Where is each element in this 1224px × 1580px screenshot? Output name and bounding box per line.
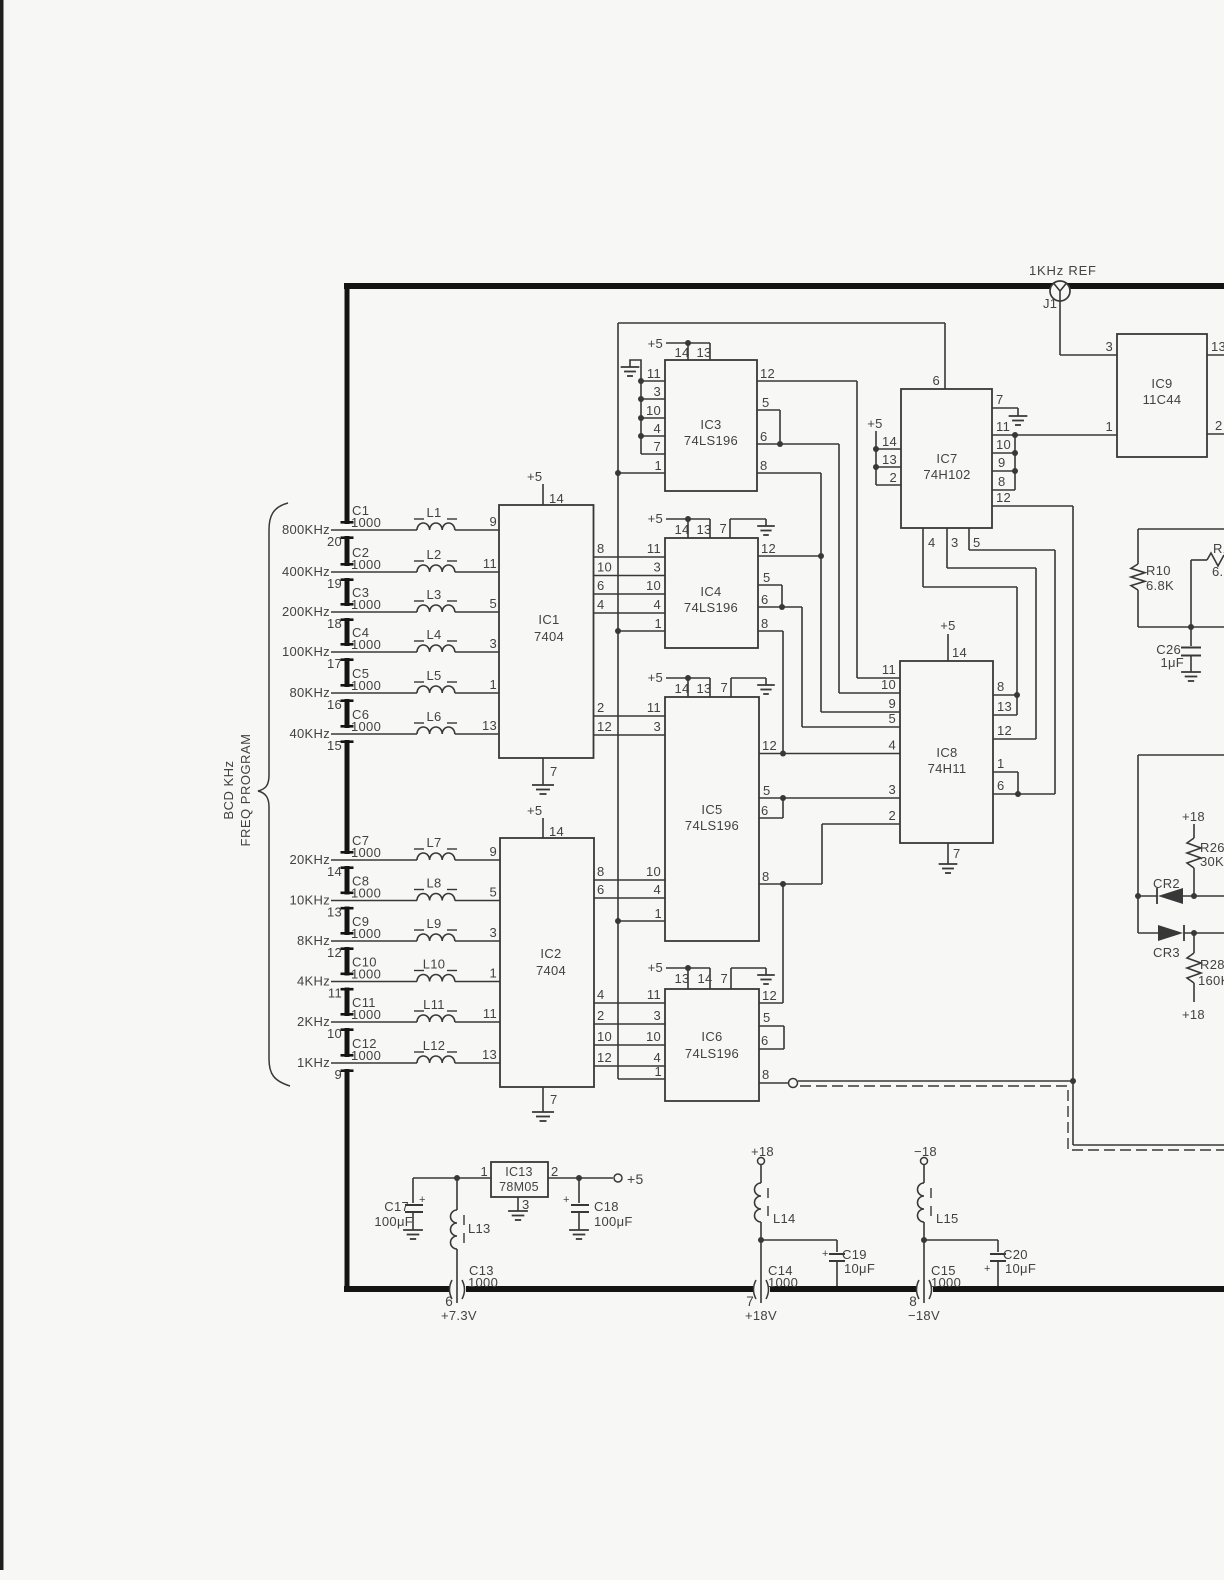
svg-text:7: 7 [719,521,727,536]
wire IC6 pin 5 to pin 6 [759,1025,784,1027]
svg-text:12: 12 [996,490,1011,505]
svg-text:L9: L9 [426,916,441,931]
svg-text:8: 8 [597,541,605,556]
svg-text:1000: 1000 [351,967,381,982]
svg-text:L2: L2 [426,547,441,562]
wire IC4 pin 5 to pin 6 [758,584,782,586]
svg-text:+: + [563,1194,570,1206]
capacitor C26 1uF [1190,627,1192,646]
svg-text:IC7: IC7 [936,451,957,466]
svg-text:8: 8 [762,1067,770,1082]
svg-text:1000: 1000 [351,1048,381,1063]
svg-text:10μF: 10μF [844,1261,875,1276]
svg-text:100μF: 100μF [594,1214,633,1229]
capacitor C14 1000 feedthrough [754,1280,769,1299]
wire 80KHz row [331,692,417,694]
wire IC2 pin 8 to IC5 pin 10 [594,879,665,881]
inductor L12 [417,1056,455,1063]
svg-text:1000: 1000 [351,678,381,693]
svg-text:+5: +5 [627,1171,644,1187]
svg-text:6: 6 [597,578,605,593]
svg-text:8: 8 [761,616,769,631]
svg-text:2: 2 [1215,418,1223,433]
resistor R11 (clipped at edge) [1207,553,1224,566]
ground IC3 left [630,360,641,381]
svg-text:74LS196: 74LS196 [685,1046,739,1061]
svg-text:7: 7 [953,846,961,861]
ground IC4 pin 7 [729,519,731,538]
svg-text:FREQ PROGRAM: FREQ PROGRAM [238,734,253,847]
svg-text:18: 18 [327,616,342,631]
svg-text:17: 17 [327,656,342,671]
svg-text:2: 2 [889,470,897,485]
feedthrough capacitor plate serifs at row y=612 [341,603,354,606]
svg-text:R1: R1 [1213,541,1224,556]
IC IC3 74LS196 box [665,360,757,491]
svg-text:1000: 1000 [351,886,381,901]
svg-text:+5: +5 [648,960,663,975]
svg-text:+5: +5 [648,670,663,685]
svg-text:11: 11 [647,541,661,556]
wire 10KHz row [331,900,417,902]
inductor L13 [456,1178,458,1210]
feedthrough capacitor plate serifs at row y=693 [341,684,354,687]
svg-text:R26: R26 [1200,840,1224,855]
wire IC8 pin 8 junction [993,694,1017,696]
svg-text:200KHz: 200KHz [282,604,330,619]
svg-text:10: 10 [996,437,1011,452]
wire center conductor to junction [798,1080,1073,1082]
wire 20KHz row [331,859,417,861]
svg-text:−18: −18 [914,1144,937,1159]
wire IC3 input bracket pins 11 3 10 4 7 [640,381,642,454]
inductor L5 [417,686,455,693]
svg-text:74LS196: 74LS196 [684,433,738,448]
svg-text:9: 9 [489,844,497,859]
wire IC7 pin 4 to IC8 pins 8 13 [922,528,924,587]
svg-text:14: 14 [674,681,689,696]
svg-text:12: 12 [597,1050,612,1065]
svg-text:13: 13 [674,971,689,986]
svg-text:8KHz: 8KHz [297,933,330,948]
IC IC8 74H11 box [900,661,993,843]
svg-text:IC6: IC6 [701,1029,722,1044]
feedthrough capacitor plate serifs at row y=900.5 [341,892,354,895]
svg-text:11: 11 [483,1006,497,1021]
wire 1KHz row [331,1062,417,1064]
svg-text:10: 10 [646,578,661,593]
IC IC2 7404 box [500,838,594,1087]
svg-text:L11: L11 [423,997,445,1012]
svg-text:L12: L12 [423,1038,446,1053]
feedthrough capacitor plate serifs at row y=941 [341,932,354,935]
svg-text:C18: C18 [594,1199,619,1214]
svg-text:9: 9 [334,1067,342,1082]
wire 8KHz row [331,940,417,942]
shield dashed line [800,1086,1224,1150]
ground IC8 pin 7 [947,843,949,864]
svg-text:IC1: IC1 [538,612,559,627]
svg-text:74H102: 74H102 [923,467,970,482]
resistor R28 160K [1193,933,1195,953]
wire IC7 pin 3 to IC8 pin 12 [946,528,948,568]
wire J1 to IC9 pin 3 [1059,301,1061,355]
svg-text:5: 5 [763,570,771,585]
svg-text:8: 8 [760,458,768,473]
capacitor C13 1000 feedthrough [456,1280,458,1303]
svg-text:10μF: 10μF [1005,1261,1036,1276]
ground C18 [569,1229,589,1231]
svg-text:11: 11 [483,556,497,571]
wire IC7 pins 10 9 8 tie [1014,435,1016,490]
wire IC7 pin 5 to IC8 pins 1 6 [968,528,970,550]
svg-text:L10: L10 [423,957,446,972]
svg-text:6.8K: 6.8K [1146,578,1174,593]
svg-text:2: 2 [888,808,896,823]
wire IC5 pin 12 to IC8 pin 4 [759,753,900,755]
svg-text:+: + [822,1248,829,1260]
svg-text:7404: 7404 [534,629,564,644]
svg-text:+5: +5 [527,469,542,484]
svg-text:14: 14 [674,522,689,537]
wire left branch down [1137,755,1139,933]
ground IC5 pin 7 [730,678,732,697]
wire IC3 pin 12 to IC8 pin 11 [757,380,857,382]
svg-text:3: 3 [653,384,661,399]
svg-text:1KHz REF: 1KHz REF [1029,263,1097,278]
inductor L8 [417,893,455,900]
svg-text:4KHz: 4KHz [297,974,330,989]
wire IC2 pin 4 to IC6 pin 11 [594,1002,665,1004]
svg-text:4: 4 [653,1050,661,1065]
svg-text:IC4: IC4 [700,584,721,599]
capacitor C18 100uF [578,1178,580,1203]
feedthrough capacitor plate serifs at row y=860 [341,851,354,854]
svg-text:5: 5 [489,596,497,611]
svg-text:14: 14 [882,434,897,449]
svg-text:IC8: IC8 [936,745,957,760]
feedthrough capacitor plate serifs at row y=981.5 [341,973,354,976]
inductor L1 [417,523,455,530]
svg-text:6: 6 [997,778,1005,793]
svg-text:+5: +5 [867,416,882,431]
svg-text:1000: 1000 [351,515,381,530]
svg-text:+5: +5 [940,618,955,633]
svg-text:L3: L3 [426,587,441,602]
svg-text:IC5: IC5 [701,802,722,817]
svg-text:L4: L4 [426,627,441,642]
svg-text:14: 14 [697,971,712,986]
wire IC3 pin 5 to pin 6 [757,409,780,411]
svg-text:4: 4 [888,738,896,753]
svg-text:+18: +18 [1182,809,1205,824]
svg-text:7: 7 [720,680,728,695]
svg-text:160K: 160K [1198,973,1224,988]
svg-text:30K: 30K [1200,854,1224,869]
svg-text:1KHz: 1KHz [297,1055,330,1070]
svg-text:1000: 1000 [351,719,381,734]
svg-text:6: 6 [761,592,769,607]
svg-text:L13: L13 [468,1221,491,1236]
svg-text:1μF: 1μF [1160,655,1184,670]
wire to IC5 pin 1 [618,920,665,922]
svg-text:74LS196: 74LS196 [685,818,739,833]
svg-text:5: 5 [763,783,771,798]
inductor L4 [417,645,455,652]
svg-text:800KHz: 800KHz [282,522,330,537]
svg-text:3: 3 [522,1197,530,1212]
svg-text:1: 1 [997,756,1005,771]
ground IC13 pin 3 [517,1197,519,1211]
svg-text:1: 1 [489,677,497,692]
capacitor C20 10uF [990,1253,1006,1255]
feedthrough capacitor plate serifs at row y=652 [341,643,354,646]
svg-text:11: 11 [996,419,1010,434]
wire IC3 pin 6 to IC8 pin 10 [757,443,839,445]
svg-text:15: 15 [327,738,342,753]
svg-text:4: 4 [653,882,661,897]
wire IC1 pin 10 to IC4 pin 3 [594,575,666,577]
svg-text:−18V: −18V [908,1308,940,1323]
wire IC2 pin 12 to IC6 pin 4 [594,1065,665,1067]
svg-text:11: 11 [882,662,896,677]
wire IC9 pin 2 to edge [1207,433,1224,435]
svg-text:2: 2 [551,1164,559,1179]
svg-text:+: + [419,1194,426,1206]
svg-text:74LS196: 74LS196 [684,600,738,615]
feedthrough capacitor plate serifs at row y=1022 [341,1013,354,1016]
svg-text:7: 7 [746,1294,754,1309]
inductor L11 [417,1015,455,1022]
svg-text:8: 8 [997,679,1005,694]
svg-text:10: 10 [646,403,661,418]
svg-text:11: 11 [647,987,661,1002]
svg-text:+18V: +18V [745,1308,777,1323]
brace BCD KHz FREQ PROGRAM group [258,503,290,1086]
svg-text:+7.3V: +7.3V [441,1308,477,1323]
svg-text:5: 5 [489,885,497,900]
svg-text:L5: L5 [426,668,441,683]
ground IC6 pin 7 [730,968,732,989]
wire to IC3 pin 1 [618,472,665,474]
svg-text:8: 8 [762,869,770,884]
wire top of diode network [1138,754,1224,756]
svg-text:3: 3 [653,560,661,575]
svg-text:13: 13 [997,699,1012,714]
wire IC7 pin 11 to IC9 pin 1 [992,434,1117,436]
svg-text:13: 13 [696,522,711,537]
svg-text:12: 12 [762,988,777,1003]
svg-text:3: 3 [951,535,959,550]
svg-text:4: 4 [597,597,605,612]
svg-text:7: 7 [996,392,1004,407]
svg-text:5: 5 [763,1010,771,1025]
wire IC6 pin 12 to IC5 pin 8 node [759,1002,783,1004]
svg-text:IC2: IC2 [540,946,561,961]
wire IC1 pin 8 to IC4 pin 11 [594,556,666,558]
svg-text:13: 13 [482,718,497,733]
wire IC9 pin 13 to edge [1207,354,1224,356]
svg-text:20: 20 [327,534,342,549]
svg-text:10: 10 [881,677,896,692]
ground C26 [1181,671,1201,673]
wire 4KHz row [331,981,417,983]
wire R10 bottom node [1138,626,1224,628]
svg-text:13: 13 [696,345,711,360]
svg-text:3: 3 [489,636,497,651]
scan edge artifact [0,0,4,1570]
svg-text:L7: L7 [426,835,441,850]
IC IC7 74H102 box [901,389,992,528]
svg-text:12: 12 [597,719,612,734]
shield border left [345,283,350,524]
inductor L3 [417,605,455,612]
IC IC6 74LS196 box [665,989,759,1101]
svg-text:1000: 1000 [931,1275,961,1290]
wire IC4 pin 8 to IC5 pin 12 node [758,630,783,632]
svg-text:400KHz: 400KHz [282,564,330,579]
wire bus IC7 pin 6 to pin 1 inputs [617,323,619,1079]
svg-text:78M05: 78M05 [499,1180,539,1194]
ground IC7 pin 7 [992,407,1018,409]
svg-text:IC3: IC3 [700,417,721,432]
wire IC2 pin 2 to IC6 pin 3 [594,1023,665,1025]
svg-text:1: 1 [1105,419,1113,434]
svg-text:+5: +5 [648,336,663,351]
svg-text:L8: L8 [426,876,441,891]
svg-text:R28: R28 [1200,957,1224,972]
svg-text:L14: L14 [773,1211,796,1226]
diode CR3 [1138,932,1158,934]
svg-text:6: 6 [932,373,940,388]
wire IC1 pin 12 to IC5 pin 3 [594,734,666,736]
svg-text:11C44: 11C44 [1143,392,1182,407]
svg-text:6: 6 [761,803,769,818]
svg-text:10: 10 [597,1029,612,1044]
svg-text:1: 1 [654,906,662,921]
IC IC4 74LS196 box [665,538,758,648]
svg-text:7: 7 [550,1092,558,1107]
wire 800KHz row [331,529,417,531]
wire IC8 pin 12 [993,738,1036,740]
svg-text:14: 14 [952,645,967,660]
wire to IC4 pin 1 [618,630,665,632]
wire 400KHz row [331,571,417,573]
inductor L15 [923,1165,925,1184]
svg-text:C17: C17 [384,1199,409,1214]
wire 200KHz row [331,611,417,613]
svg-text:4: 4 [928,535,936,550]
inductor L14 [760,1165,762,1184]
svg-text:12: 12 [327,945,342,960]
svg-text:BCD KHz: BCD KHz [221,760,236,819]
svg-text:3: 3 [653,719,661,734]
feedthrough capacitor plate serifs at row y=572 [341,563,354,566]
wire IC13 pin 2 output +5 [548,1177,613,1179]
svg-text:74H11: 74H11 [928,761,967,776]
svg-text:2: 2 [597,700,605,715]
svg-text:14: 14 [674,345,689,360]
wire IC6 pin 8 shielded output [759,1082,788,1084]
svg-text:1000: 1000 [351,637,381,652]
svg-text:1: 1 [654,458,662,473]
svg-text:13: 13 [1211,339,1224,354]
svg-text:3: 3 [489,925,497,940]
ground IC2 pin 7 [542,1087,544,1112]
svg-text:12: 12 [762,738,777,753]
wire to IC6 pin 1 [618,1078,665,1080]
capacitor C19 10uF [829,1253,845,1255]
wire IC8 pin 6 junction [993,793,1055,795]
svg-text:R10: R10 [1146,563,1171,578]
ground C17 [403,1229,423,1231]
svg-text:12: 12 [761,541,776,556]
svg-text:13: 13 [696,681,711,696]
svg-text:100μF: 100μF [374,1214,413,1229]
inductor L7 [417,853,455,860]
wire IC4 pin 6 to IC8 pin 5 [758,606,802,608]
svg-text:+: + [984,1263,991,1275]
wire IC13 pin 1 input [413,1177,491,1179]
wire IC1 pin 2 to IC5 pin 11 [594,715,666,717]
shield border bottom [344,1286,449,1292]
svg-text:40KHz: 40KHz [289,726,330,741]
svg-text:10: 10 [646,864,661,879]
inductor L9 [417,934,455,941]
svg-text:7: 7 [550,764,558,779]
svg-text:6: 6 [597,882,605,897]
svg-text:3: 3 [1105,339,1113,354]
ground IC1 pin 7 [542,758,544,785]
svg-text:7: 7 [653,439,661,454]
wire IC2 pin 10 to IC6 pin 10 [594,1044,665,1046]
wire IC1 pin 4 to IC4 pin 4 [594,612,666,614]
svg-text:IC9: IC9 [1151,376,1172,391]
svg-text:J1: J1 [1043,296,1057,311]
svg-text:L6: L6 [426,709,441,724]
wire IC3 pin 8 to IC8 pin 9 [757,472,821,474]
wire IC4 pin 12 to junction [758,555,821,557]
resistor R26 30K [1193,824,1195,838]
svg-text:16: 16 [327,697,342,712]
svg-text:13: 13 [482,1047,497,1062]
svg-text:1000: 1000 [351,926,381,941]
svg-text:5: 5 [762,395,770,410]
svg-text:8: 8 [998,474,1006,489]
svg-text:L1: L1 [426,505,441,520]
IC IC1 7404 box [499,505,594,758]
svg-text:6: 6 [760,429,768,444]
wire 40KHz row [331,733,417,735]
svg-text:12: 12 [997,723,1012,738]
svg-text:14: 14 [549,491,564,506]
svg-text:1000: 1000 [351,845,381,860]
IC IC5 74LS196 box [665,697,759,941]
svg-text:9: 9 [998,455,1006,470]
wire IC5 pin 8 to IC6 pin 12 and IC8 pin 2 [759,883,822,885]
svg-text:4: 4 [653,597,661,612]
svg-text:12: 12 [760,366,775,381]
svg-text:14: 14 [327,864,342,879]
inductor L10 [417,974,455,981]
inductor L6 [417,727,455,734]
inductor L2 [417,565,455,572]
wire IC8 pin 1 [993,771,1018,773]
svg-text:11: 11 [328,986,342,1001]
svg-text:80KHz: 80KHz [289,685,330,700]
svg-text:19: 19 [327,576,342,591]
svg-text:+5: +5 [527,803,542,818]
